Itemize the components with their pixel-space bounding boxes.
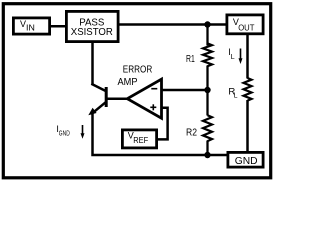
current arrow I_L — [240, 49, 242, 60]
wire error amp output to Q1 base — [105, 97, 128, 100]
current arrow I_GND — [82, 125, 84, 135]
wire feedback node to R2 — [206, 90, 208, 116]
node feedback junction — [204, 87, 210, 93]
wire R_L to GND block — [246, 100, 249, 153]
wire R1 to feedback node — [206, 66, 208, 92]
wire PASS XSISTOR output to V_OUT — [118, 23, 228, 26]
svg-text:L: L — [231, 54, 235, 61]
resistor R2 — [203, 115, 212, 141]
block V_IN — [13, 18, 49, 34]
wire V_REF to error amp non-inverting input — [157, 108, 168, 140]
wire ground junction to GND block — [208, 154, 230, 157]
resistor R_L — [244, 78, 252, 101]
block PASS XSISTOR — [66, 11, 118, 41]
svg-text:XSISTOR: XSISTOR — [71, 26, 113, 38]
svg-text:L: L — [234, 92, 238, 99]
svg-text:REF: REF — [133, 136, 148, 145]
svg-text:R2: R2 — [186, 128, 197, 139]
op-amp U1 error amp — [127, 79, 161, 118]
resistor R1 — [203, 43, 212, 66]
wire Q1 emitter to ground rail — [93, 113, 208, 156]
svg-text:ERROR: ERROR — [123, 64, 153, 76]
wire PASS XSISTOR to Q1 collector — [91, 42, 94, 85]
wire V_OUT node to R1 — [206, 25, 208, 46]
transistor Q1 — [88, 84, 106, 115]
svg-text:OUT: OUT — [238, 22, 254, 32]
svg-text:AMP: AMP — [118, 76, 138, 88]
wire V_OUT to load — [246, 34, 249, 79]
svg-text:IN: IN — [26, 24, 35, 33]
wire feedback node to error amp inverting input — [161, 89, 208, 92]
svg-text:GND: GND — [235, 155, 258, 167]
wire R2 to ground rail — [206, 141, 208, 156]
node ground junction — [204, 152, 210, 158]
svg-text:R1: R1 — [186, 54, 195, 65]
wire V_IN to PASS XSISTOR — [50, 25, 67, 28]
block V_OUT — [227, 15, 263, 34]
node output junction — [204, 21, 210, 27]
block V_REF — [122, 130, 156, 148]
block GND — [228, 152, 263, 167]
svg-text:GND: GND — [59, 131, 70, 138]
